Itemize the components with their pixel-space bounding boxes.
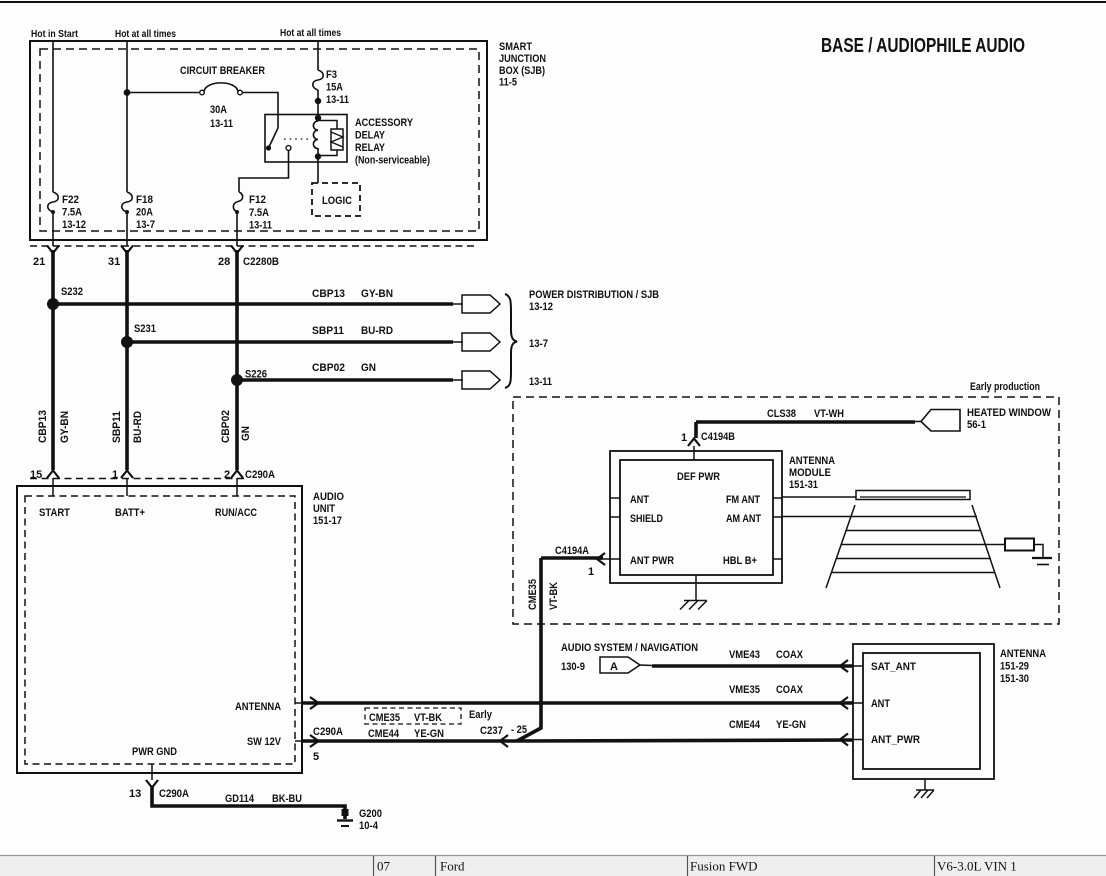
- svg-text:G200: G200: [359, 808, 382, 820]
- wire antenna out stub: [295, 702, 303, 704]
- wire VME43 coax: [640, 664, 652, 667]
- svg-text:1: 1: [588, 566, 594, 578]
- wire feed L3: [317, 41, 319, 70]
- svg-text:CBP13: CBP13: [37, 410, 49, 443]
- arrow left sat_ant: [840, 660, 848, 672]
- svg-text:13-12: 13-12: [62, 219, 86, 231]
- svg-text:F3: F3: [326, 69, 337, 81]
- wire feed L2: [126, 41, 128, 192]
- svg-text:Fusion FWD: Fusion FWD: [690, 859, 758, 874]
- svg-text:SAT_ANT: SAT_ANT: [871, 661, 916, 673]
- wire resistor to ground: [1034, 545, 1043, 558]
- svg-text:1: 1: [112, 469, 118, 481]
- splice S226: [231, 374, 243, 386]
- svg-text:Early: Early: [469, 709, 493, 721]
- audio unit inner dashed: [25, 496, 295, 764]
- audio unit box outer: [17, 486, 302, 773]
- svg-text:SHIELD: SHIELD: [630, 513, 663, 525]
- LOGIC box: [312, 183, 360, 216]
- svg-text:(Non-serviceable): (Non-serviceable): [355, 155, 430, 167]
- svg-text:21: 21: [33, 256, 45, 268]
- wire relay switch to F12: [239, 151, 289, 193]
- svg-text:VME43: VME43: [729, 649, 760, 661]
- relay resistor parallel: [318, 121, 337, 130]
- svg-text:BK-BU: BK-BU: [272, 793, 302, 805]
- svg-text:ANT: ANT: [630, 494, 649, 506]
- svg-text:DEF PWR: DEF PWR: [677, 471, 720, 483]
- svg-text:C290A: C290A: [313, 726, 343, 738]
- svg-text:C2280B: C2280B: [243, 256, 279, 268]
- svg-text:GN: GN: [240, 426, 252, 441]
- svg-text:CLS38: CLS38: [767, 408, 796, 420]
- svg-text:GY-BN: GY-BN: [361, 288, 393, 300]
- svg-text:VT-BK: VT-BK: [548, 582, 560, 610]
- svg-text:151-30: 151-30: [1000, 673, 1029, 685]
- arrow down pin28: [231, 246, 243, 254]
- svg-text:JUNCTION: JUNCTION: [499, 53, 546, 65]
- pin stubs right: [773, 497, 782, 499]
- wire relay to LOGIC: [317, 162, 319, 183]
- svg-text:7.5A: 7.5A: [249, 207, 269, 219]
- arrow up pin2: [231, 471, 243, 479]
- svg-text:10-4: 10-4: [359, 820, 379, 832]
- svg-text:CIRCUIT BREAKER: CIRCUIT BREAKER: [180, 65, 265, 77]
- wire feed L1: [52, 41, 54, 192]
- svg-text:- 25: - 25: [511, 724, 527, 736]
- wire thick L3 down: [235, 250, 239, 470]
- antenna box outer: [853, 644, 994, 779]
- svg-text:VT-BK: VT-BK: [414, 712, 442, 724]
- wire thick L2 down: [125, 250, 129, 470]
- CME35 VT-BK dashed box: [365, 708, 461, 724]
- fuse F12: [233, 192, 272, 246]
- svg-text:151-17: 151-17: [313, 515, 342, 527]
- svg-text:CME35: CME35: [369, 712, 400, 724]
- svg-text:07: 07: [377, 859, 391, 874]
- svg-text:GD114: GD114: [225, 793, 255, 805]
- svg-text:ANT_PWR: ANT_PWR: [871, 734, 920, 746]
- fuse F22: [48, 192, 86, 246]
- relay coil: [315, 115, 321, 121]
- fuse F3: [313, 69, 349, 118]
- svg-text:DELAY: DELAY: [355, 130, 386, 142]
- splice S231: [121, 336, 133, 348]
- wire sw12v row: [303, 739, 517, 743]
- svg-text:13-11: 13-11: [210, 118, 233, 130]
- svg-text:7.5A: 7.5A: [62, 207, 82, 219]
- grid line 5: [832, 572, 995, 574]
- svg-text:A: A: [610, 661, 618, 673]
- relay K1 accessory delay relay: [265, 115, 430, 167]
- svg-text:START: START: [39, 507, 70, 519]
- grid line 4: [837, 558, 991, 560]
- wire CBP13 GY-BN row: [53, 302, 453, 306]
- svg-text:13: 13: [129, 788, 141, 800]
- svg-text:AUDIO SYSTEM / NAVIGATION: AUDIO SYSTEM / NAVIGATION: [561, 642, 698, 654]
- svg-text:GY-BN: GY-BN: [59, 411, 71, 443]
- svg-text:HEATED WINDOW: HEATED WINDOW: [967, 407, 1052, 419]
- wire FM ANT row: [782, 496, 856, 498]
- svg-text:CBP02: CBP02: [312, 362, 345, 374]
- svg-text:AM ANT: AM ANT: [726, 513, 761, 525]
- svg-text:5: 5: [313, 751, 319, 763]
- svg-text:BATT+: BATT+: [115, 507, 145, 519]
- svg-text:YE-GN: YE-GN: [776, 719, 806, 731]
- svg-text:C290A: C290A: [159, 788, 189, 800]
- arrow up pin1: [121, 471, 133, 479]
- svg-text:28: 28: [218, 256, 230, 268]
- wire breaker to relay: [242, 93, 278, 129]
- svg-text:VT-WH: VT-WH: [814, 408, 844, 420]
- svg-text:30A: 30A: [210, 104, 227, 116]
- wire CLS38 row: [696, 420, 915, 424]
- arrow down pwr gnd: [146, 780, 158, 788]
- svg-text:BU-RD: BU-RD: [361, 325, 393, 337]
- svg-text:C4194A: C4194A: [555, 545, 589, 557]
- wire PWR GND stub: [151, 764, 153, 780]
- svg-text:RUN/ACC: RUN/ACC: [215, 507, 257, 519]
- svg-text:CBP02: CBP02: [220, 410, 232, 443]
- svg-text:HBL B+: HBL B+: [723, 555, 757, 567]
- svg-text:ANT: ANT: [871, 698, 890, 710]
- svg-text:13-7: 13-7: [136, 219, 155, 231]
- connector arrow pentagon 2: [462, 333, 500, 351]
- svg-text:ACCESSORY: ACCESSORY: [355, 117, 414, 129]
- connector C290A dashed line: [30, 478, 244, 480]
- svg-text:Hot at all times: Hot at all times: [115, 29, 176, 40]
- svg-text:CBP13: CBP13: [312, 288, 345, 300]
- grid left diagonal: [826, 505, 855, 588]
- svg-text:F22: F22: [62, 194, 79, 206]
- arrow up pin15: [47, 471, 59, 479]
- arrow left ant_pwr: [840, 734, 848, 746]
- relay dotted link: [284, 138, 310, 140]
- early production dashed box: [513, 397, 1059, 624]
- arrow right antenna: [310, 697, 319, 709]
- arrow left ANT PWR: [597, 553, 605, 565]
- svg-text:151-31: 151-31: [789, 479, 818, 491]
- svg-text:13-11: 13-11: [326, 94, 349, 106]
- svg-text:56-1: 56-1: [967, 419, 986, 431]
- svg-text:C237: C237: [480, 725, 503, 737]
- grid line 3: [841, 544, 1005, 546]
- resistor R1: [1005, 539, 1034, 551]
- svg-text:13-7: 13-7: [529, 338, 548, 350]
- svg-text:Hot at all times: Hot at all times: [280, 28, 341, 39]
- pin stubs left: [610, 497, 620, 499]
- arrow up C4194B: [688, 439, 700, 447]
- ground earth: [1032, 558, 1052, 565]
- svg-text:20A: 20A: [136, 207, 153, 219]
- svg-text:13-11: 13-11: [529, 376, 552, 388]
- svg-text:V6-3.0L VIN 1: V6-3.0L VIN 1: [937, 859, 1017, 874]
- svg-text:CME35: CME35: [527, 579, 539, 610]
- arrow down pin21: [47, 246, 59, 254]
- wire SBP11 BU-RD row: [127, 340, 453, 344]
- svg-text:PWR GND: PWR GND: [132, 746, 177, 758]
- svg-text:CME44: CME44: [729, 719, 761, 731]
- svg-text:SW 12V: SW 12V: [247, 736, 282, 748]
- svg-text:2: 2: [224, 469, 230, 481]
- module ground chassis: [695, 575, 697, 600]
- svg-text:YE-GN: YE-GN: [414, 728, 444, 740]
- svg-text:MODULE: MODULE: [789, 467, 831, 479]
- svg-text:ANT PWR: ANT PWR: [630, 555, 674, 567]
- svg-text:31: 31: [108, 256, 120, 268]
- svg-text:F18: F18: [136, 194, 153, 206]
- svg-text:F12: F12: [249, 194, 266, 206]
- grid line 2: [846, 530, 981, 532]
- svg-text:BASE / AUDIOPHILE AUDIO: BASE / AUDIOPHILE AUDIO: [821, 35, 1025, 57]
- grid right diagonal: [972, 505, 1000, 588]
- svg-text:Hot in Start: Hot in Start: [31, 29, 79, 40]
- antenna module inner box: [620, 460, 773, 575]
- svg-text:ANTENNA: ANTENNA: [1000, 648, 1046, 660]
- connector C2280B dashed line: [30, 245, 478, 247]
- svg-text:COAX: COAX: [776, 649, 804, 661]
- antenna ground chassis: [924, 779, 926, 790]
- top border line: [0, 1, 1106, 3]
- arrow right sw12v: [310, 735, 319, 747]
- wire AM ANT row: [782, 516, 977, 518]
- svg-text:UNIT: UNIT: [313, 503, 335, 515]
- FM element bar: [856, 491, 970, 500]
- svg-text:1: 1: [681, 432, 687, 444]
- svg-text:15A: 15A: [326, 82, 343, 94]
- svg-text:SBP11: SBP11: [312, 325, 344, 337]
- svg-text:151-29: 151-29: [1000, 661, 1029, 673]
- arrow left C237: [500, 735, 508, 747]
- svg-text:13-12: 13-12: [529, 301, 553, 313]
- svg-text:AUDIO: AUDIO: [313, 491, 344, 503]
- ground G200: [337, 808, 382, 832]
- svg-text:130-9: 130-9: [561, 661, 585, 673]
- svg-text:S232: S232: [61, 286, 83, 298]
- svg-text:ANTENNA: ANTENNA: [235, 701, 281, 713]
- svg-text:COAX: COAX: [776, 684, 804, 696]
- splice S232: [47, 298, 59, 310]
- svg-text:11-5: 11-5: [499, 77, 517, 89]
- SJB inner dashed: [40, 49, 479, 231]
- connector A pentagon: [600, 657, 640, 673]
- connector arrow pentagon 1: [462, 295, 500, 313]
- antenna module outer box: [610, 451, 782, 583]
- brace: [505, 294, 517, 388]
- wire VME35 coax row: [303, 701, 853, 705]
- svg-text:FM ANT: FM ANT: [726, 494, 760, 506]
- antenna box inner: [863, 653, 980, 769]
- svg-text:BU-RD: BU-RD: [132, 411, 144, 443]
- arrow down pin31: [121, 246, 133, 254]
- svg-text:Early production: Early production: [970, 381, 1040, 393]
- wire CBP02 GN row: [237, 378, 453, 382]
- svg-text:SBP11: SBP11: [111, 411, 123, 443]
- svg-text:ANTENNA: ANTENNA: [789, 455, 835, 467]
- svg-text:RELAY: RELAY: [355, 142, 386, 154]
- svg-text:15: 15: [30, 469, 42, 481]
- wire stubs into audio unit: [52, 478, 54, 496]
- svg-text:POWER DISTRIBUTION / SJB: POWER DISTRIBUTION / SJB: [529, 289, 659, 301]
- svg-text:Ford: Ford: [440, 859, 465, 874]
- SJB box U1 outer: [30, 41, 487, 240]
- wire diagonal bend C237: [517, 558, 541, 741]
- svg-text:S231: S231: [134, 323, 156, 335]
- svg-text:VME35: VME35: [729, 684, 760, 696]
- wire thick L1 down: [51, 250, 55, 470]
- heated window pentagon: [921, 410, 960, 432]
- svg-text:BOX (SJB): BOX (SJB): [499, 65, 545, 77]
- wire sw12v out stub: [295, 740, 303, 742]
- svg-text:C4194B: C4194B: [701, 431, 735, 443]
- relay switch arm: [269, 128, 279, 148]
- circuit breaker CB 30A: [124, 65, 265, 130]
- pin stubs: [853, 665, 863, 667]
- fuse F18: [122, 192, 155, 246]
- svg-text:SMART: SMART: [499, 41, 532, 53]
- wire stub into antenna module: [693, 446, 695, 460]
- wire ANT_PWR row right: [517, 740, 853, 741]
- svg-text:CME44: CME44: [368, 728, 400, 740]
- arrow left ant: [840, 697, 848, 709]
- wire C4194A: [541, 556, 603, 560]
- svg-text:GN: GN: [361, 362, 376, 374]
- svg-text:C290A: C290A: [245, 469, 275, 481]
- svg-text:13-11: 13-11: [249, 220, 272, 232]
- svg-text:LOGIC: LOGIC: [322, 195, 352, 207]
- connector arrow pentagon 3: [462, 371, 500, 389]
- wire GD114 to ground: [152, 786, 345, 819]
